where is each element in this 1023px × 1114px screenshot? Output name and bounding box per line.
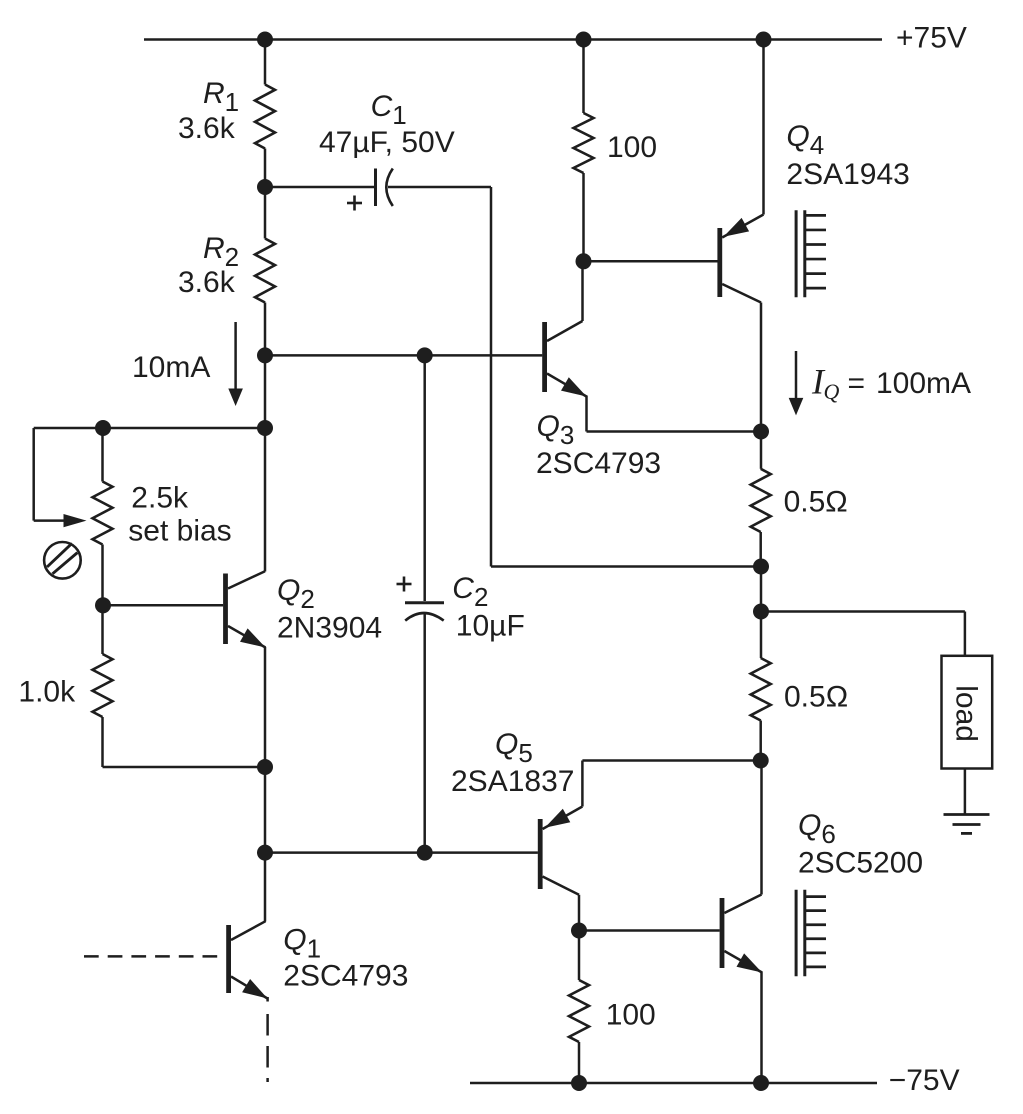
svg-text:3.6k: 3.6k	[178, 266, 236, 299]
svg-text:47µF, 50V: 47µF, 50V	[319, 126, 455, 159]
svg-text:100mA: 100mA	[876, 367, 971, 400]
svg-text:set bias: set bias	[128, 515, 231, 548]
svg-text:2SC4793: 2SC4793	[536, 447, 661, 480]
svg-text:2SC5200: 2SC5200	[798, 847, 923, 880]
svg-text:2SA1837: 2SA1837	[451, 765, 574, 798]
svg-text:+75V: +75V	[896, 22, 967, 55]
svg-text:100: 100	[606, 999, 656, 1032]
svg-text:Q: Q	[824, 379, 840, 404]
svg-text:10mA: 10mA	[132, 351, 210, 384]
svg-text:0.5Ω: 0.5Ω	[784, 486, 848, 519]
svg-text:=: =	[848, 367, 866, 400]
svg-text:0.5Ω: 0.5Ω	[784, 681, 848, 714]
svg-text:2N3904: 2N3904	[277, 612, 382, 645]
svg-text:−75V: −75V	[889, 1064, 960, 1097]
svg-text:load: load	[949, 685, 982, 742]
svg-text:2SA1943: 2SA1943	[786, 158, 909, 191]
svg-text:10µF: 10µF	[456, 610, 525, 643]
svg-text:2SC4793: 2SC4793	[283, 960, 408, 993]
svg-text:1.0k: 1.0k	[18, 676, 76, 709]
svg-text:100: 100	[607, 131, 657, 164]
svg-text:2.5k: 2.5k	[131, 482, 189, 515]
svg-text:3.6k: 3.6k	[178, 112, 236, 145]
